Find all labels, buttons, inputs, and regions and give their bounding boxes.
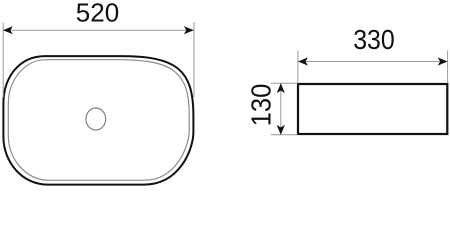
extension line right of 330 — [447, 51, 449, 83]
basin side view body — [298, 84, 447, 134]
arrowhead 130 bottom — [277, 125, 285, 135]
dimension line 520 — [3, 29, 193, 31]
dimension line 130 — [280, 83, 282, 134]
extension line right of 520 — [193, 22, 195, 97]
arrowhead 520 right — [184, 26, 194, 34]
basin top view outer rim — [3, 56, 193, 185]
extension line top of 130 — [271, 82, 298, 84]
arrowhead 520 left — [3, 26, 13, 34]
svg-text:330: 330 — [353, 24, 395, 56]
svg-text:520: 520 — [76, 0, 119, 27]
arrowhead 330 right — [438, 57, 448, 65]
basin top view inner rim — [8, 60, 189, 181]
svg-text:130: 130 — [246, 84, 277, 127]
drain hole — [86, 108, 106, 130]
arrowhead 130 top — [277, 83, 285, 93]
extension line left of 330 — [297, 51, 299, 83]
dimension line 330 — [298, 61, 447, 63]
extension line left of 520 — [2, 23, 4, 98]
extension line bottom of 130 — [271, 134, 298, 136]
arrowhead 330 left — [298, 57, 308, 65]
